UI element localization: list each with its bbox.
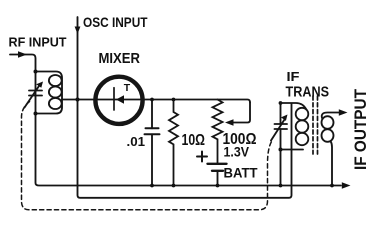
battery B1 plus sign: [197, 152, 207, 162]
svg-text:BATT: BATT: [224, 166, 259, 181]
svg-text:10Ω: 10Ω: [182, 132, 206, 149]
potentiometer wiper arrowhead: [225, 119, 234, 126]
wire RF input line with corner down and bottom rail: [10, 55, 341, 186]
potentiometer R2 100 ohm: [213, 100, 223, 164]
tuning cap plates: [275, 124, 288, 129]
svg-text:OSC INPUT: OSC INPUT: [83, 14, 148, 30]
svg-text:RF INPUT: RF INPUT: [9, 35, 67, 50]
node coil bottom junction: [34, 112, 38, 116]
mixer transistor bar: [113, 88, 115, 110]
svg-text:IF OUTPUT: IF OUTPUT: [351, 88, 370, 170]
IF transformer core: [313, 96, 318, 154]
antenna coil L1 frame: [36, 72, 63, 114]
svg-text:1.3V: 1.3V: [224, 145, 250, 160]
tuning cap arrow: [271, 120, 285, 141]
potentiometer wiper loop: [228, 103, 250, 123]
battery B1 plates: [208, 163, 227, 165]
IF transformer T1 tuning cap vertical: [280, 103, 282, 186]
battery bottom lead: [217, 171, 219, 186]
mixer stage circle U1: [95, 77, 142, 124]
svg-text:T: T: [124, 82, 131, 94]
IF transformer secondary bottom wire: [331, 141, 333, 186]
OSC input arrowhead: [75, 27, 81, 35]
RF input arrowhead: [18, 51, 27, 58]
variable capacitor C1 arrow: [25, 85, 41, 108]
svg-text:.01: .01: [127, 134, 146, 149]
IF transformer secondary top wire to output: [322, 113, 340, 119]
bottom rail arrowhead: [342, 182, 351, 189]
svg-text:MIXER: MIXER: [99, 51, 141, 67]
svg-text:TRANS: TRANS: [286, 85, 330, 101]
node OSC junction: [75, 97, 79, 101]
IF transformer primary loops: [296, 108, 309, 120]
dashed gang line left: [22, 102, 273, 210]
capacitor C2 .01: [151, 100, 153, 186]
node coil top junction: [34, 70, 38, 74]
resistor R1 10 ohm: [169, 100, 178, 186]
IF transformer primary bottom wire: [281, 149, 304, 151]
variable capacitor C1 plates: [29, 91, 42, 96]
mixer transistor arrow: [116, 95, 124, 103]
OSC input vertical line down to lower rail and up right side to IF primary: [78, 17, 292, 198]
antenna coil L1 loops: [49, 75, 62, 86]
svg-text:IF: IF: [287, 69, 300, 84]
IF transformer primary top wire: [281, 103, 307, 110]
IF output arrowhead: [339, 109, 348, 116]
IF transformer secondary loops: [322, 116, 334, 129]
wire tap line from coil to mixer and collector line: [62, 100, 250, 103]
